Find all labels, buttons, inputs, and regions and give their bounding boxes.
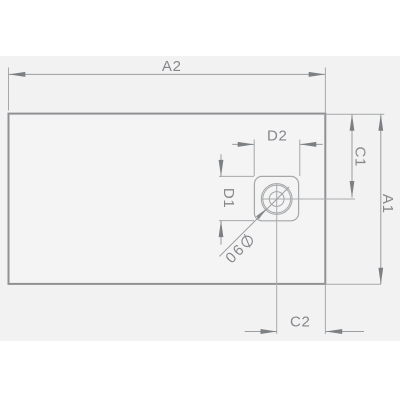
C1 bottom arrow <box>350 181 355 198</box>
A2 left arrow <box>9 72 26 77</box>
drain horizontal centerline <box>261 198 355 200</box>
D2 right extension line <box>299 139 301 176</box>
C1 top arrow <box>350 114 355 131</box>
drain diameter label: diameter symbol slash <box>244 234 250 247</box>
C2 right extension line <box>324 284 326 334</box>
drain inner circle <box>269 192 284 207</box>
D1 bottom extension line <box>219 220 254 222</box>
svg-text:D2: D2 <box>267 128 288 145</box>
D1 top arrow <box>219 160 224 177</box>
A1 top arrow <box>378 114 383 131</box>
C2 dimension line left tail <box>245 331 277 333</box>
C2 dimension line right tail <box>326 331 364 333</box>
drain leader line <box>219 187 289 256</box>
drain outer circle <box>261 184 292 215</box>
tray outline (rectangle) <box>9 114 326 284</box>
A2 right extension line <box>324 68 326 113</box>
svg-text:C2: C2 <box>290 314 311 331</box>
drain leader arrow <box>256 209 266 219</box>
C2 left arrow <box>261 329 278 334</box>
D1 bottom arrow <box>219 221 224 238</box>
D2 dimension line left tail <box>232 143 254 145</box>
svg-text:D1: D1 <box>220 188 237 209</box>
drain vertical centerline <box>276 184 278 334</box>
D1 top extension line <box>219 175 254 177</box>
bottom edge extension line (to A1) <box>325 283 381 285</box>
A2 left extension line <box>8 68 10 111</box>
drain square <box>254 176 298 220</box>
A1 dimension line <box>380 114 382 284</box>
svg-text:C1: C1 <box>352 147 369 168</box>
C2 right arrow <box>326 329 343 334</box>
A2 right arrow <box>309 72 326 77</box>
svg-text:A1: A1 <box>379 194 396 214</box>
drain diameter label: diameter symbol circle <box>242 236 252 246</box>
svg-text:A2: A2 <box>162 58 182 75</box>
gray drawing panel <box>0 56 400 341</box>
D2 dimension line right tail <box>300 143 323 145</box>
D1 dimension line bottom tail <box>220 221 222 245</box>
A1 bottom arrow <box>378 268 383 285</box>
D2 right arrow <box>300 142 317 147</box>
drain middle ring <box>263 185 291 213</box>
D2 left arrow <box>238 142 255 147</box>
top edge extension line (to C1/A1) <box>325 113 384 115</box>
D2 left extension line <box>253 139 255 176</box>
A2 dimension line <box>9 73 325 75</box>
D1 dimension line top tail <box>220 154 222 176</box>
C1 dimension line <box>351 114 353 197</box>
